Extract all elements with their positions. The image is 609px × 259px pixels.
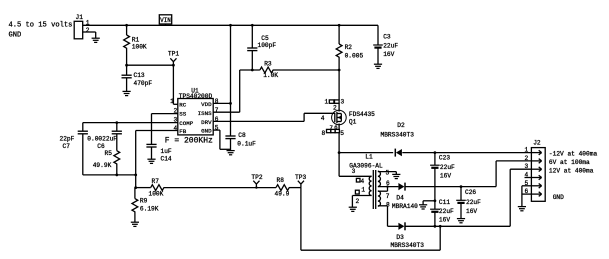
svg-text:C23: C23: [439, 155, 450, 162]
svg-text:16V: 16V: [440, 173, 451, 180]
node rail-R1 junction: [125, 24, 128, 27]
wire L1 pin7 up: [378, 185, 390, 200]
L1 pin1 pad: [355, 187, 365, 194]
wire 6V rail: [405, 161, 531, 187]
wire TP3 down and bottom rail: [301, 188, 440, 251]
svg-text:3: 3: [340, 99, 344, 106]
svg-text:C7: C7: [63, 143, 71, 150]
J2 pin numbers: [525, 147, 529, 196]
svg-text:ISNS: ISNS: [198, 110, 212, 117]
svg-text:5: 5: [340, 130, 344, 137]
svg-text:SS: SS: [179, 111, 186, 118]
svg-text:22uF: 22uF: [383, 43, 398, 50]
svg-text:GND: GND: [9, 31, 22, 39]
connector J1: [74, 14, 90, 39]
svg-text:6V at 100ma: 6V at 100ma: [549, 159, 590, 166]
svg-text:C13: C13: [134, 72, 145, 79]
svg-text:C8: C8: [238, 132, 246, 139]
U1 pin 4 FB: [173, 125, 186, 135]
svg-text:F = 200KHz: F = 200KHz: [165, 137, 213, 146]
svg-text:MBRS340T3: MBRS340T3: [391, 242, 425, 249]
wire ISNS pin up: [213, 70, 240, 112]
wire switch node to L1 pin3: [339, 153, 372, 177]
node rail-VDD junction: [229, 24, 232, 27]
svg-text:TP2: TP2: [251, 174, 262, 181]
wire VIN rail: [83, 24, 378, 26]
U1 pin 6 DRV: [201, 116, 219, 126]
wire compensation bottom: [83, 174, 136, 176]
svg-text:VIN: VIN: [160, 17, 171, 24]
svg-text:0.1uF: 0.1uF: [237, 140, 256, 147]
op-amp U1 TPS40200D body: [178, 87, 213, 134]
svg-text:RC: RC: [179, 101, 186, 108]
node cap midpoint ground tap: [434, 199, 437, 202]
L1 primary winding: [369, 176, 371, 195]
svg-text:100K: 100K: [149, 191, 164, 198]
wire 12V rail: [405, 169, 531, 226]
ground at L1 pin5: [392, 174, 400, 178]
ground at J2: [518, 207, 526, 211]
L1 secondary winding 7-8: [378, 191, 381, 206]
svg-text:R7: R7: [152, 178, 160, 185]
ground at cap midpoint: [419, 205, 427, 209]
U1 pin 1 RC: [170, 98, 187, 108]
wire L1 pin2 to ground: [352, 196, 371, 208]
VIN net label: [159, 15, 171, 25]
L1 secondary winding 5-6: [378, 171, 381, 186]
node FB-R7-R9 junction: [134, 186, 137, 189]
output labels: [549, 150, 598, 201]
svg-text:5: 5: [386, 170, 390, 177]
J2 pin arrows: [531, 150, 541, 196]
ground at J1 pin2: [92, 38, 100, 42]
wire R8 to TP3: [289, 187, 301, 189]
svg-text:COMP: COMP: [179, 120, 193, 127]
resistor R1: [124, 25, 147, 65]
test point TP2: [251, 174, 262, 189]
node C5 junction: [251, 69, 254, 72]
svg-text:8: 8: [321, 130, 325, 137]
svg-text:1: 1: [170, 98, 174, 105]
svg-text:FDS4435: FDS4435: [349, 111, 375, 118]
svg-text:4: 4: [360, 178, 364, 185]
svg-text:22uF: 22uF: [439, 208, 454, 215]
J2 pin4 stub: [525, 177, 532, 179]
node switch node junction: [338, 151, 341, 154]
resistor R8: [275, 177, 290, 197]
wire R1/C13 junction to TP1 vertical: [127, 64, 174, 66]
node R2-R3 junction: [338, 69, 341, 72]
svg-text:C26: C26: [465, 189, 476, 196]
svg-text:R1: R1: [132, 36, 140, 43]
svg-text:16V: 16V: [383, 51, 394, 58]
capacitor C23: [430, 153, 455, 210]
svg-text:C14: C14: [161, 155, 172, 162]
resistor R7: [136, 178, 164, 197]
svg-text:1.0K: 1.0K: [263, 72, 278, 79]
svg-text:49.9: 49.9: [275, 190, 290, 197]
ground at C3: [374, 64, 382, 68]
wire L1 pin5 to ground: [378, 170, 396, 177]
svg-text:R8: R8: [277, 177, 285, 184]
svg-text:6: 6: [215, 116, 219, 123]
wire R2 node to Q1: [338, 70, 340, 100]
U1 pin 5 GND: [201, 125, 219, 135]
U1 pin 2 SS: [173, 107, 186, 117]
resistor R9: [132, 188, 159, 222]
input voltage text: [9, 22, 73, 40]
svg-text:3: 3: [352, 168, 356, 175]
svg-text:R5: R5: [105, 150, 113, 157]
svg-text:FB: FB: [179, 128, 186, 135]
svg-text:1: 1: [361, 187, 365, 194]
svg-text:16V: 16V: [439, 217, 450, 224]
svg-text:DRV: DRV: [201, 119, 212, 126]
svg-text:1: 1: [525, 147, 529, 154]
diode D2: [339, 122, 531, 157]
node FB-comp junction: [134, 174, 137, 177]
U1 pin 8 VDD: [201, 98, 219, 108]
transistor Q1 FDS4435: [321, 99, 375, 137]
node VDD junction: [229, 102, 232, 105]
svg-text:4: 4: [321, 115, 325, 122]
wire L1 pin8 to D3: [378, 202, 399, 227]
node C11 bottom junction: [434, 225, 437, 228]
svg-text:22uF: 22uF: [466, 199, 481, 206]
svg-text:TP1: TP1: [168, 50, 179, 57]
resistor R5: [93, 150, 120, 175]
svg-text:49.9K: 49.9K: [93, 162, 112, 169]
capacitor C5: [247, 25, 276, 70]
node rail-C5 junction: [251, 24, 254, 27]
wire FB pin down: [136, 131, 178, 188]
wire DRV to gate: [213, 113, 335, 121]
ground at C13: [123, 91, 131, 95]
wire Q1 drain down: [338, 133, 340, 153]
ground at L1 pin2: [349, 207, 357, 211]
svg-text:100pF: 100pF: [258, 42, 277, 49]
svg-text:4.5 to 15 volts: 4.5 to 15 volts: [9, 22, 73, 30]
svg-text:L1: L1: [365, 153, 373, 160]
capacitor C11: [430, 199, 454, 227]
svg-text:R3: R3: [264, 60, 272, 67]
wire rail to VDD pin and C8: [213, 25, 230, 135]
svg-text:C3: C3: [383, 34, 391, 41]
svg-text:D4: D4: [396, 194, 404, 201]
resistor R2: [336, 25, 363, 70]
ground at U1/C8: [227, 151, 235, 155]
svg-text:C5: C5: [261, 35, 269, 42]
node R5 bottom junction: [115, 174, 118, 177]
svg-text:R9: R9: [140, 198, 148, 205]
node R1-C13-TP1 junction: [125, 64, 128, 67]
node C23 top junction: [434, 151, 437, 154]
svg-text:GND: GND: [553, 194, 564, 201]
svg-text:D2: D2: [397, 122, 405, 129]
svg-text:6.19K: 6.19K: [140, 206, 159, 213]
svg-text:22uF: 22uF: [440, 164, 455, 171]
capacitor C13: [122, 65, 153, 91]
L1 core: [373, 170, 375, 209]
svg-text:C11: C11: [439, 199, 450, 206]
svg-text:VDD: VDD: [201, 101, 212, 108]
capacitor C14: [146, 144, 172, 162]
svg-text:0.0022uF: 0.0022uF: [87, 136, 117, 143]
svg-text:GND: GND: [201, 128, 212, 135]
U1 pin 7 ISNS: [198, 107, 219, 117]
capacitor C7: [60, 123, 88, 175]
node TP1 junction: [172, 64, 175, 67]
svg-text:22pF: 22pF: [60, 136, 75, 143]
svg-text:7: 7: [215, 107, 219, 114]
svg-text:D3: D3: [396, 234, 404, 241]
node C26 junction: [460, 185, 463, 188]
test point TP3: [295, 174, 306, 188]
svg-text:J2: J2: [533, 140, 541, 147]
wire ISNS node to R3: [240, 69, 260, 71]
ground at C14: [147, 159, 155, 163]
test point TP1: [168, 50, 179, 65]
svg-text:100K: 100K: [132, 44, 147, 51]
wire TP1 to RC pin: [173, 65, 177, 104]
wire COMP line: [83, 122, 178, 124]
capacitor C6: [87, 123, 122, 151]
svg-text:2: 2: [355, 198, 359, 205]
connector J2 body: [531, 140, 545, 202]
capacitor C26: [456, 187, 481, 219]
U1 pin 3 COMP: [173, 117, 193, 127]
wire SS pin to C14: [152, 114, 178, 144]
capacitor C3: [373, 25, 398, 64]
wire GND pin to ground: [213, 130, 230, 149]
inductor L1 GA3096-AL labels: [349, 153, 383, 169]
svg-text:2: 2: [86, 27, 90, 34]
svg-text:Q1: Q1: [349, 119, 357, 126]
node rail-R2 junction: [338, 24, 341, 27]
node TP3 rail junction: [439, 225, 442, 228]
svg-text:2: 2: [525, 155, 529, 162]
svg-text:TP3: TP3: [295, 174, 306, 181]
wire L1 pin6 to D4: [378, 180, 399, 187]
svg-text:7: 7: [386, 193, 390, 200]
ground at R9: [131, 222, 139, 226]
svg-text:1uF: 1uF: [161, 148, 172, 155]
svg-text:0.005: 0.005: [345, 53, 364, 60]
svg-text:3: 3: [525, 163, 529, 170]
wire J2 pins5-6 to ground: [522, 186, 532, 207]
L1 pin4 pad: [356, 178, 364, 185]
svg-text:MBRS340T3: MBRS340T3: [381, 132, 415, 139]
wire J1 pin2 to ground: [83, 32, 96, 38]
wire R7 to R8: [164, 187, 276, 189]
svg-text:MBRA140: MBRA140: [392, 203, 418, 210]
svg-text:12V at 400ma: 12V at 400ma: [549, 168, 594, 175]
diode D4: [392, 183, 418, 210]
svg-text:-12V at 400ma: -12V at 400ma: [549, 150, 598, 157]
svg-text:470pF: 470pF: [134, 80, 153, 87]
svg-text:J1: J1: [76, 14, 84, 21]
capacitor C8: [225, 132, 256, 151]
resistor R3: [260, 60, 339, 79]
svg-text:R2: R2: [345, 44, 353, 51]
svg-text:7: 7: [329, 124, 333, 131]
diode D3: [391, 222, 425, 249]
svg-text:16V: 16V: [466, 208, 477, 215]
svg-text:1: 1: [324, 99, 328, 106]
wire cap midpoint to ground: [423, 201, 435, 205]
node COMP-C6 junction: [115, 121, 118, 124]
ground at C26: [457, 219, 465, 223]
